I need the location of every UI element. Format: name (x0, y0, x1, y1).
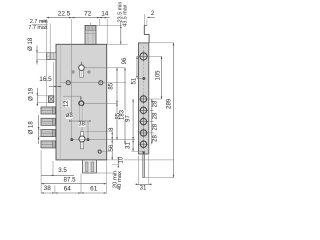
faceplate centerline (143, 46, 145, 149)
deadbolt B1 (41, 107, 55, 114)
label 3.5 (57, 167, 67, 174)
label 96 (122, 57, 128, 64)
label diameter 19 (28, 87, 34, 101)
label 40 max (117, 171, 123, 190)
hub tail slot (80, 106, 82, 121)
dot right of lower keyhole (87, 138, 90, 141)
dimension 38 / 64 / 61 chain (41, 150, 106, 194)
svg-text:38: 38 (78, 121, 85, 127)
label diameter 18 top (28, 37, 34, 51)
block top extension (96, 24, 121, 26)
pin left of upper keyhole (72, 71, 74, 73)
svg-text:38: 38 (44, 185, 52, 192)
lower keyhole (cylinder) (79, 122, 85, 149)
label 289 (166, 98, 173, 109)
label 28 c (153, 123, 159, 130)
hole H1 axis extension (149, 98, 162, 100)
label 72 (84, 11, 92, 18)
label 87.5 (63, 177, 77, 184)
label 12 (64, 100, 70, 107)
dimension 22.5 / 72 / 14 chain (46, 17, 109, 107)
dimension 183 (124, 68, 126, 144)
faceplate hole H2 (139, 106, 149, 116)
svg-text:72: 72 (84, 11, 92, 18)
hub axis extension (84, 102, 118, 104)
svg-text:Ø 18: Ø 18 (29, 121, 35, 135)
svg-text:31: 31 (125, 142, 131, 149)
label 2.7 min (30, 19, 48, 25)
small hole axis extension (137, 78, 147, 80)
case screw upper-right (99, 81, 103, 85)
square spindle follower (X box) (49, 96, 54, 103)
svg-text:56: 56 (109, 144, 115, 151)
label 56 (109, 144, 115, 151)
dimension 31 bottom (136, 156, 152, 186)
front wall inner line (59, 44, 61, 160)
block bottom extension (97, 172, 114, 174)
svg-text:22.5: 22.5 (58, 11, 71, 18)
label 14 (101, 11, 109, 18)
svg-text:96: 96 (122, 57, 128, 64)
svg-text:105: 105 (155, 70, 161, 81)
deadbolt B3 (41, 130, 55, 137)
label 43.5 max (123, 4, 129, 26)
svg-text:14: 14 (101, 11, 109, 18)
dimension 28 chain (150, 99, 154, 144)
svg-text:16.5: 16.5 (39, 76, 52, 83)
dimension 97 and 31 chain (132, 99, 134, 151)
svg-text:3.5: 3.5 (58, 167, 67, 174)
faceplate top hole (latch) (138, 51, 148, 61)
label 7.7 max (28, 25, 47, 31)
svg-text:289: 289 (166, 98, 173, 109)
latch bolt (side view) (47, 53, 56, 60)
rod end extension (145, 177, 174, 179)
label diameter 8 (66, 113, 74, 119)
label 22.5 (58, 11, 71, 18)
label 16.5 (39, 76, 52, 83)
faceplate small fixing hole (143, 77, 146, 80)
svg-text:85: 85 (109, 82, 115, 89)
label 31 bottom (140, 185, 147, 192)
label 85 upper (109, 82, 115, 89)
dot left of lower keyhole (70, 138, 73, 141)
label 20 min (112, 171, 118, 188)
31 lower reference extension (132, 150, 144, 152)
svg-text:10: 10 (119, 156, 125, 163)
label 85 lower (115, 112, 121, 119)
svg-text:51: 51 (132, 77, 138, 84)
label 97 (125, 115, 131, 122)
svg-text:43.5 max: 43.5 max (123, 4, 129, 26)
pin right of upper keyhole (88, 71, 90, 73)
label 28 b (153, 112, 159, 119)
bottom rod (143, 154, 145, 178)
label 2 (151, 11, 155, 17)
hub circle (79, 101, 84, 106)
slot top extension (85, 131, 113, 133)
label 51 (132, 77, 138, 84)
label 38 bottom (44, 185, 52, 192)
label 28 a (153, 100, 159, 107)
label 8 (109, 127, 115, 131)
svg-text:61: 61 (90, 186, 98, 193)
label 61 bottom (90, 186, 98, 193)
bottom rod coupler block (83, 160, 97, 173)
svg-text:28: 28 (153, 112, 159, 119)
svg-text:31: 31 (140, 185, 147, 192)
internal plate edge extension x=71.75 (71, 19, 73, 139)
faceplate hole H3 (139, 117, 149, 127)
faceplate bend profile (144, 25, 149, 43)
top hole axis extension (137, 55, 162, 57)
faceplate hole H1 (139, 94, 149, 104)
case screw lower-right (98, 150, 112, 153)
dimension 38 (body) (69, 120, 90, 138)
svg-text:Ø 18: Ø 18 (28, 37, 34, 51)
faceplate hole H4 (139, 128, 149, 138)
label 31 right (125, 142, 131, 149)
svg-text:7.7 max: 7.7 max (28, 25, 47, 31)
svg-text:97: 97 (125, 115, 131, 122)
deadbolt B2 (41, 118, 55, 125)
cylinder axis extension (85, 67, 126, 69)
dimension 2 (plate thickness) (147, 17, 155, 19)
label 183 (120, 109, 126, 120)
label 10 (119, 156, 125, 163)
rod throw arrow (142, 151, 145, 156)
body bottom extension (107, 159, 174, 161)
svg-text:28: 28 (153, 100, 159, 107)
deadbolt B4 (41, 141, 55, 148)
upper keyhole (double-bit cylinder) (79, 62, 85, 77)
dimension 105 (161, 56, 163, 99)
label 64 bottom (64, 185, 72, 192)
dimension 8 and 56 chain (111, 132, 113, 160)
screw axis line (60, 82, 127, 84)
dimension diameter-18 bolts (38, 115, 41, 144)
svg-text:ø8: ø8 (66, 113, 74, 119)
svg-text:40 max: 40 max (117, 171, 123, 190)
lock body case (56, 44, 107, 160)
dimension 3.5 (41, 161, 74, 176)
dimension 23.5min-43.5max (120, 22, 122, 45)
case screw upper-left (66, 81, 70, 85)
svg-text:28: 28 (153, 135, 159, 142)
dimension 85 + 85 chain (116, 68, 118, 140)
label 38 body (78, 121, 85, 127)
faceplate hole H5 (139, 139, 149, 149)
dimension 12 (63, 96, 82, 101)
svg-text:64: 64 (64, 185, 72, 192)
body top extension (107, 43, 128, 45)
label 23.5 min (118, 2, 124, 23)
strip top extension (149, 42, 174, 44)
dimension 289 (173, 43, 175, 178)
svg-text:28: 28 (153, 123, 159, 130)
top rod block with serrated adjuster (85, 23, 96, 44)
bend profile extensions (144, 14, 147, 25)
dimension 2.7min-7.7max leader (42, 20, 51, 52)
svg-text:12: 12 (64, 100, 70, 107)
dimension 51 (136, 56, 138, 78)
dimension 10 (112, 157, 119, 167)
dimension diameter-19 spindle (37, 88, 49, 106)
svg-text:Ø 19: Ø 19 (28, 87, 34, 101)
lower keyhole axis extension (70, 139, 135, 141)
dimension 87.5 (41, 183, 106, 185)
dimension 16.5 (49, 62, 61, 96)
faceplate strip (138, 43, 148, 154)
dimension diameter-18 latch (36, 46, 46, 65)
label 105 (155, 70, 161, 81)
label diameter 18 low (29, 121, 35, 135)
svg-text:87.5: 87.5 (63, 177, 76, 184)
label 28 d (153, 135, 159, 142)
